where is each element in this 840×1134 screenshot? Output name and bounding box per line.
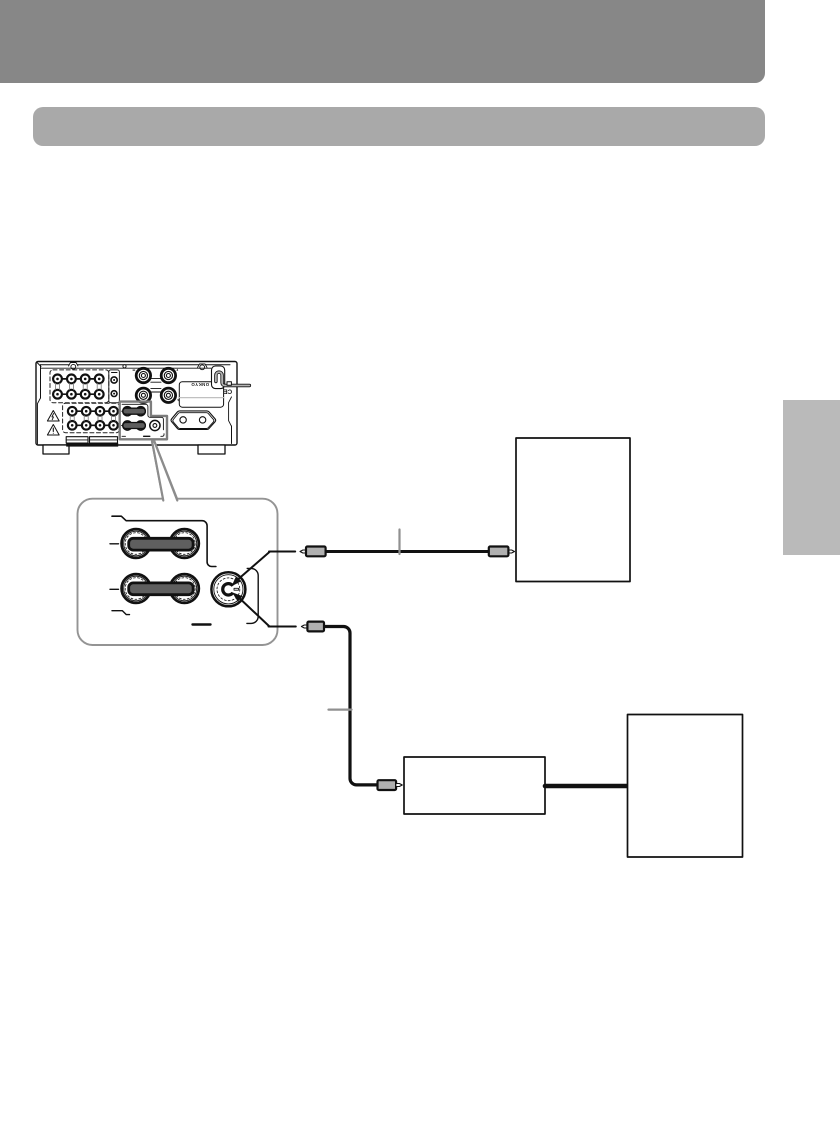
ONKYO label plate	[179, 382, 223, 408]
vent shadow bar	[66, 443, 118, 447]
cable 1 left plug	[300, 547, 326, 557]
component box 2	[628, 715, 743, 858]
arrow to coax (lower)	[232, 592, 296, 626]
digital-in highlight box on panel	[120, 402, 167, 440]
cord hook	[227, 382, 231, 385]
speaker post markers	[133, 369, 180, 402]
arrow to coax (upper)	[232, 552, 296, 587]
coaxial jack (balloon)	[211, 572, 245, 606]
optical port pair 2 (panel)	[123, 421, 145, 430]
coax cable 2	[324, 627, 378, 785]
receiver feet	[43, 445, 225, 454]
callout balloon	[78, 441, 278, 645]
cable 2 right plug	[378, 780, 403, 790]
cable 2 length tick	[329, 708, 352, 710]
cable 1 right plug	[489, 547, 515, 557]
analog input jack block (top-left, dashed)	[50, 370, 119, 403]
coaxial jack (panel)	[150, 420, 160, 430]
warning triangle (exclamation)	[47, 425, 59, 436]
optical connector pair 1 (balloon)	[122, 529, 199, 558]
vent slots	[66, 437, 117, 443]
svg-text:CE: CE	[223, 388, 232, 395]
power cord strain relief	[212, 366, 250, 389]
side tab	[783, 400, 840, 555]
warning triangle (lightning)	[47, 411, 59, 422]
section title bar	[33, 107, 765, 146]
cable 2 left plug	[301, 622, 324, 632]
RCA jacks lower block	[68, 407, 118, 430]
speaker binding posts	[136, 368, 175, 402]
component box 3 (small)	[404, 757, 545, 814]
header bar	[0, 0, 765, 83]
RCA jacks row 1-2 top block	[53, 375, 104, 399]
lower RCA jack block (dashed)	[63, 403, 120, 433]
component box 1	[516, 438, 630, 582]
leader lines to callout	[152, 441, 177, 500]
receiver rear panel chassis	[36, 362, 237, 446]
thick link line	[545, 784, 628, 789]
top edge screws and bumps	[41, 363, 211, 370]
cable 1 length tick	[398, 530, 400, 555]
optical connector pair 2 (balloon)	[122, 574, 199, 603]
AC inlet	[171, 411, 216, 430]
small aux jacks column	[111, 373, 117, 397]
svg-text:ONKYO: ONKYO	[191, 382, 209, 387]
digital group thin outline on panel	[122, 404, 164, 436]
optical port pair 1 (panel)	[123, 407, 145, 416]
coax cable 1	[324, 550, 490, 553]
digital group outline (balloon)	[110, 516, 258, 624]
